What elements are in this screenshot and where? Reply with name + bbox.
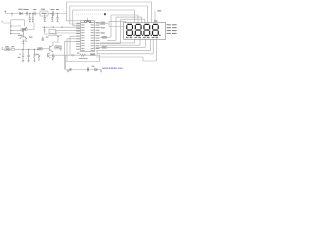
svg-text:www.dianlut.com: www.dianlut.com bbox=[102, 66, 124, 70]
svg-text:CPU: CPU bbox=[84, 20, 92, 24]
